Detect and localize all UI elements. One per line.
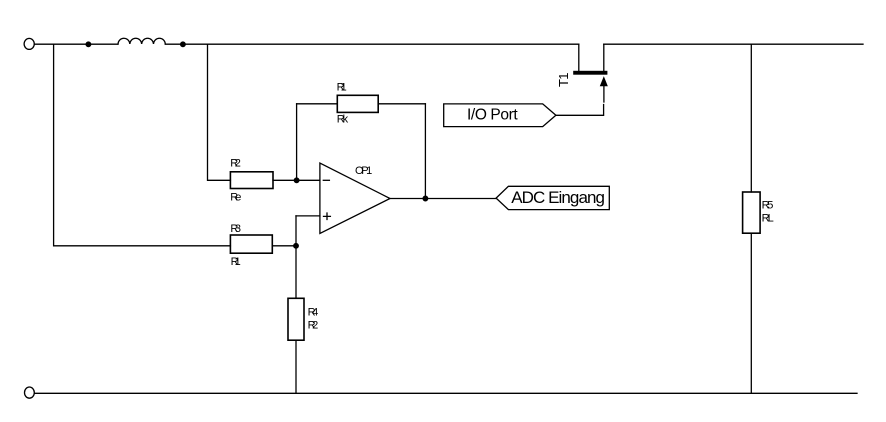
svg-text:RL: RL xyxy=(762,212,774,224)
tag I/O Port outline xyxy=(444,104,556,127)
node: output junction xyxy=(423,196,428,201)
resistor R5 (RL) xyxy=(743,192,761,233)
wire to op-amp plus input xyxy=(296,215,320,217)
svg-text:Rk: Rk xyxy=(337,113,349,125)
svg-text:I/O Port: I/O Port xyxy=(467,107,518,124)
wire I/O Port to T1 gate (lower segment) xyxy=(556,105,604,116)
resistor R1 (Rk) xyxy=(337,95,378,112)
svg-text:R1: R1 xyxy=(337,82,347,94)
wire noninverting vertical xyxy=(295,216,297,298)
transistor T1 channel bar xyxy=(573,71,607,75)
terminal bottom-left xyxy=(25,387,35,398)
node: inductor right pin xyxy=(181,42,186,47)
resistor R4 (R2) xyxy=(288,298,304,340)
wire R2 to inverting input xyxy=(273,179,320,181)
op-amp plus symbol xyxy=(324,213,331,220)
wire left branch down to R3 xyxy=(54,44,231,246)
svg-text:R5: R5 xyxy=(762,200,774,212)
svg-text:R1: R1 xyxy=(231,256,241,268)
wire op-amp output xyxy=(390,198,496,200)
svg-text:R4: R4 xyxy=(308,307,319,319)
wire R5 branch top xyxy=(750,44,752,192)
terminal top-left xyxy=(24,38,34,49)
op-amp OP1 xyxy=(320,163,390,233)
wire feedback left vertical xyxy=(296,104,298,181)
wire top rail: terminal to inductor xyxy=(34,43,118,45)
svg-text:OP1: OP1 xyxy=(355,165,372,177)
wire bottom rail xyxy=(35,392,857,394)
wire feedback to R1 xyxy=(297,103,338,105)
wire branch down to R2 xyxy=(208,44,231,180)
svg-text:Re: Re xyxy=(230,192,241,204)
resistor R3 (R1) xyxy=(230,235,272,253)
svg-text:R2: R2 xyxy=(230,157,241,169)
wire top rail: inductor to T1 drain xyxy=(165,43,579,45)
wire top rail: right of T1 xyxy=(604,43,863,45)
transistor T1 source lead xyxy=(603,44,605,71)
wire feedback right vertical xyxy=(424,104,426,199)
resistor R2 (Re) xyxy=(230,172,273,189)
svg-text:R2: R2 xyxy=(308,319,319,331)
svg-text:ADC Eingang: ADC Eingang xyxy=(511,188,605,207)
wire T1 gate stub above gap xyxy=(603,86,605,102)
inductor L1 xyxy=(118,38,165,44)
transistor T1 drain lead xyxy=(578,44,580,71)
wire R5 to bottom rail xyxy=(750,233,752,393)
svg-text:T1: T1 xyxy=(556,73,571,88)
node: noninverting branch junction xyxy=(294,244,299,249)
tag ADC Eingang outline xyxy=(496,186,609,209)
wire R3 to junction xyxy=(272,245,296,247)
node: inverting input junction xyxy=(294,178,299,183)
svg-text:R3: R3 xyxy=(230,223,241,235)
wire R4 to bottom rail xyxy=(295,340,297,393)
op-amp minus symbol xyxy=(323,179,329,181)
node: inductor left pin xyxy=(86,42,91,47)
transistor T1 gate arrow xyxy=(601,78,608,86)
wire R1 to feedback right vertical xyxy=(378,103,425,105)
